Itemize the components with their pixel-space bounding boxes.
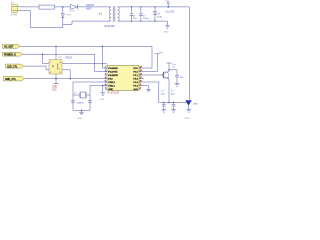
ground C6 — [171, 110, 176, 113]
junction dots secondary — [131, 6, 169, 22]
power port VCC top — [165, 1, 175, 14]
svg-text:P3.1/TXD: P3.1/TXD — [108, 71, 118, 73]
connector J1 — [11, 3, 21, 17]
svg-text:POWER_K: POWER_K — [4, 54, 16, 56]
wire ic pin6 to ground — [139, 86, 149, 90]
svg-text:2: 2 — [105, 70, 106, 72]
mcu U2 — [105, 65, 143, 91]
capacitor C6 — [171, 91, 176, 110]
port P1 — [3, 44, 21, 48]
ground C5 — [161, 110, 166, 113]
wire R1 to node A — [55, 6, 71, 8]
wire opto out bottom — [62, 70, 70, 79]
ground crystal — [78, 110, 84, 120]
power port T2 collector — [166, 63, 176, 71]
antenna E1 — [185, 100, 198, 109]
port P2 — [3, 52, 23, 56]
node gnd stub ic left — [102, 85, 104, 87]
ground secondary — [164, 21, 170, 33]
capacitor C5 — [161, 91, 166, 110]
ground ic right — [146, 89, 151, 92]
wire ic pin4 stub — [139, 78, 144, 80]
svg-text:ISO: ISO — [53, 89, 57, 91]
crystal Y1 — [74, 92, 87, 104]
svg-text:ALE: ALE — [134, 88, 139, 91]
wire opto out top — [62, 62, 107, 64]
power port T1 vcc — [139, 52, 164, 71]
svg-text:3: 3 — [60, 72, 61, 74]
node net2-opto — [42, 53, 44, 55]
wire net1 to ic pin1 — [102, 46, 107, 68]
capacitor C1 — [130, 7, 138, 21]
ground below ic left — [100, 86, 106, 101]
svg-text:ANT: ANT — [194, 102, 199, 105]
wire port3 to opto pin2 — [24, 66, 49, 70]
wire secondary bottom rail — [118, 20, 168, 22]
svg-text:1: 1 — [105, 67, 106, 69]
resistor R1 — [39, 5, 55, 9]
node c5 — [163, 102, 164, 103]
wire opto top stub — [55, 46, 57, 59]
svg-text:1: 1 — [50, 62, 51, 64]
svg-text:5: 5 — [105, 81, 106, 83]
wire xtal2 row — [73, 81, 107, 83]
svg-text:6: 6 — [105, 84, 106, 86]
svg-text:P3.2/INT0: P3.2/INT0 — [108, 75, 118, 77]
svg-text:7: 7 — [105, 88, 106, 90]
svg-text:GND: GND — [78, 118, 83, 120]
node collector cap — [168, 69, 169, 70]
wire net2 to opto pin1 — [42, 54, 49, 63]
ground antenna — [185, 110, 192, 121]
node net1-opto — [55, 46, 57, 48]
svg-text:1N: 1N — [157, 14, 160, 16]
svg-text:P6KE: P6KE — [66, 14, 72, 16]
capacitor C4 right of transistor — [169, 70, 184, 84]
transformer T1 — [99, 6, 119, 28]
crystal loop wires — [73, 82, 90, 110]
svg-text:12MHz: 12MHz — [77, 102, 84, 104]
svg-text:3: 3 — [105, 74, 106, 76]
capacitor C2 — [139, 7, 149, 21]
wire net2 — [23, 54, 107, 71]
svg-text:U? STC15F: U? STC15F — [107, 93, 120, 95]
wire bottom primary rail — [20, 11, 111, 28]
wire xtal1 row — [90, 85, 107, 87]
wire right edge vertical — [188, 7, 190, 100]
svg-text:GND: GND — [185, 118, 190, 120]
svg-text:400V: 400V — [86, 7, 92, 10]
capacitor C3 marks — [71, 101, 92, 103]
svg-text:GND_CTL: GND_CTL — [5, 79, 17, 81]
power port red below rail — [52, 79, 59, 92]
svg-text:PC817: PC817 — [65, 58, 73, 60]
svg-text:8: 8 — [140, 88, 141, 90]
node iso rail 2 — [69, 78, 71, 80]
wire D1 to transformer — [78, 6, 111, 8]
wire ic pin3 to transistor base — [139, 74, 164, 76]
wire secondary top rail — [118, 6, 190, 8]
svg-text:12: 12 — [140, 74, 142, 76]
svg-text:4: 4 — [60, 61, 61, 64]
node A junction — [62, 6, 64, 8]
wire ic pin5 to rf rail — [139, 82, 159, 103]
wire net1 horizontal — [20, 45, 152, 47]
svg-text:Vcc 12V: Vcc 12V — [166, 10, 175, 13]
svg-text:GND: GND — [164, 32, 169, 34]
wire iso rail — [25, 78, 108, 80]
wire rf output rail — [159, 102, 187, 104]
port P4 — [3, 76, 24, 81]
svg-text:XTAL1: XTAL1 — [108, 84, 115, 87]
wire net1 right branch to ic pin — [139, 46, 152, 68]
svg-text:GND: GND — [100, 99, 105, 101]
svg-text:470uF: 470uF — [143, 18, 150, 20]
svg-text:VCC: VCC — [165, 1, 170, 3]
svg-text:2: 2 — [50, 72, 51, 74]
zener diode DZ1 — [61, 7, 72, 25]
node emitter rail — [168, 102, 170, 104]
svg-text:P3.0/RXD: P3.0/RXD — [108, 68, 118, 70]
wire emitter down — [168, 79, 170, 103]
mcu pin stubs — [105, 68, 141, 89]
node crystal gnd — [81, 110, 82, 111]
ground cap C4 — [175, 84, 180, 87]
svg-text:11: 11 — [140, 77, 142, 79]
svg-text:GND: GND — [108, 89, 113, 91]
wire L-in top — [20, 6, 39, 8]
svg-text:10: 10 — [140, 81, 142, 83]
port P3 — [6, 64, 24, 68]
svg-text:CON2: CON2 — [11, 15, 18, 17]
svg-text:GND: GND — [52, 87, 57, 89]
mcu designator — [107, 93, 120, 95]
svg-text:EE16-8W: EE16-8W — [105, 25, 116, 28]
svg-text:AC_DET: AC_DET — [4, 46, 14, 49]
diode D1 — [70, 4, 78, 12]
diode D2 — [154, 7, 163, 21]
svg-text:VCC: VCC — [133, 68, 138, 70]
node c6 — [173, 102, 174, 103]
svg-text:4148: 4148 — [157, 16, 163, 18]
transistor Q1 — [162, 71, 169, 79]
net label blue text top — [86, 4, 95, 11]
svg-text:XTAL2: XTAL2 — [108, 81, 115, 84]
svg-text:1N4007: 1N4007 — [86, 4, 95, 7]
node iso rail 1 — [55, 78, 57, 80]
svg-text:9: 9 — [140, 84, 141, 86]
node net1-ic — [102, 46, 104, 48]
wire opto bottom stub — [55, 74, 57, 79]
svg-text:LED_CTL: LED_CTL — [7, 66, 18, 68]
svg-text:13: 13 — [140, 70, 142, 72]
opto-coupler U1 — [49, 60, 62, 74]
